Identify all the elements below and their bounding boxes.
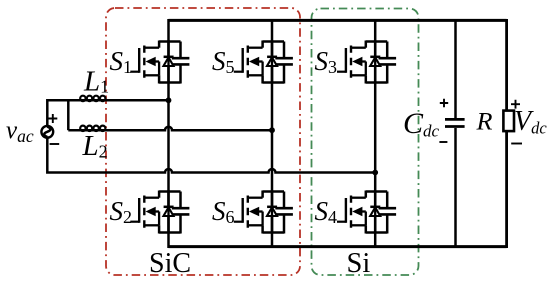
wire L1 horizontal bbox=[79, 99, 169, 102]
Si dashed box bbox=[312, 9, 419, 276]
wire right branch bbox=[505, 19, 508, 248]
wire source top lead bbox=[47, 100, 80, 126]
transistor S2 bbox=[130, 190, 189, 233]
plus sign source bbox=[48, 114, 57, 123]
svg-text:SiC: SiC bbox=[149, 248, 191, 279]
plus sign Cdc bbox=[440, 99, 448, 107]
inductor L2 bbox=[80, 126, 105, 131]
transistor S4 bbox=[337, 190, 396, 233]
node leg1 midpoint bbox=[166, 97, 172, 103]
wire L1-L2 tie vertical bbox=[67, 100, 70, 130]
svg-text:Si: Si bbox=[347, 248, 371, 279]
wire ac return with hops over leg1 leg2 bbox=[47, 138, 375, 173]
minus sign source bbox=[50, 143, 60, 145]
transistor S6 bbox=[234, 190, 293, 233]
wire leg 2 vertical bbox=[271, 19, 274, 248]
wire L2 horizontal with hop over leg1 bbox=[68, 127, 272, 130]
transistor S3 bbox=[337, 40, 396, 83]
SiC dashed box bbox=[106, 8, 300, 275]
inductor L1 bbox=[80, 96, 105, 101]
plus sign Vdc bbox=[511, 100, 520, 109]
svg-text:R: R bbox=[475, 109, 492, 136]
ac source vac bbox=[41, 126, 53, 138]
wire top rail bbox=[169, 19, 507, 22]
minus sign Cdc bbox=[439, 141, 447, 143]
wire leg 3 vertical bbox=[374, 19, 377, 248]
resistor R bbox=[503, 111, 514, 132]
transistor S1 bbox=[130, 40, 189, 83]
transistor S5 bbox=[234, 40, 293, 83]
capacitor Cdc bbox=[445, 19, 465, 248]
wire bottom rail bbox=[169, 245, 507, 248]
wire leg 1 vertical bbox=[167, 19, 170, 248]
node leg2 midpoint bbox=[269, 127, 275, 133]
minus sign Vdc bbox=[511, 143, 522, 145]
node leg3 midpoint bbox=[372, 170, 378, 176]
